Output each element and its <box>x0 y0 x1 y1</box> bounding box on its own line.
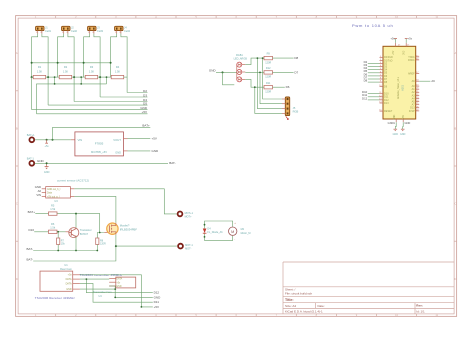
wire: J4 right pin to tap column <box>121 34 127 93</box>
svg-text:GND: GND <box>152 149 160 153</box>
wire: emitter down <box>75 237 77 251</box>
arduino pin D2 <box>364 60 388 66</box>
svg-text:F7805: F7805 <box>95 142 104 146</box>
wire: J4 left pin to divider <box>111 34 117 78</box>
arduino pin D4 <box>364 66 388 72</box>
svg-text:D8: D8 <box>364 79 368 83</box>
junction <box>57 250 59 252</box>
svg-text:120R: 120R <box>265 76 271 79</box>
svg-text:+5v: +5v <box>408 36 413 40</box>
resistor R4 1.5K <box>111 65 124 79</box>
svg-text:BAT-: BAT- <box>27 247 33 251</box>
arduino pin A3 <box>412 94 420 97</box>
svg-text:GND: GND <box>154 295 162 299</box>
wire: taps down to low rail <box>54 77 56 84</box>
svg-text:R11: R11 <box>266 82 271 85</box>
svg-text:GND: GND <box>115 150 121 154</box>
receiver module U1 <box>40 263 73 292</box>
LED RGB1 <box>234 54 248 82</box>
svg-text:R2: R2 <box>64 65 68 69</box>
wire + net label D2 <box>127 89 147 93</box>
svg-text:A101: A101 <box>402 84 405 90</box>
wire + net label +5V <box>37 110 148 114</box>
junction <box>99 232 101 234</box>
test point MOT+ <box>178 212 194 219</box>
arduino pin TXD1 <box>408 55 419 58</box>
wire: rcv data2 to D11 <box>80 283 159 304</box>
test point BAT+ <box>27 133 35 142</box>
wire: sensor out to MOT+ <box>70 189 176 214</box>
svg-text:VOUT: VOUT <box>113 138 121 142</box>
svg-text:Cell1: Cell1 <box>45 29 51 33</box>
net label GND (led) <box>209 69 237 73</box>
resistor R5 1.5k <box>49 204 58 216</box>
wire: BAT- rail 1 <box>27 247 98 251</box>
junction <box>115 245 117 247</box>
svg-text:Cell4: Cell4 <box>124 29 130 33</box>
arduino pin D6 <box>364 72 388 78</box>
svg-text:R4: R4 <box>116 65 120 69</box>
svg-text:3V3: 3V3 <box>404 50 406 55</box>
wire: J1 right pin to tap column <box>42 34 48 106</box>
arduino pin RXD1 <box>408 58 419 61</box>
arduino pin D9 <box>379 85 388 88</box>
resistor R3 1.5K <box>85 65 98 79</box>
svg-text:D8: D8 <box>294 56 298 60</box>
svg-text:Id: 1/1: Id: 1/1 <box>416 310 425 314</box>
svg-text:D: D <box>454 277 456 281</box>
wire <box>124 76 127 78</box>
junction <box>257 57 259 59</box>
wire <box>72 76 86 78</box>
svg-text:BAT+1: BAT+1 <box>27 133 35 137</box>
svg-text:A6: A6 <box>431 79 435 83</box>
svg-text:AREF: AREF <box>408 72 415 75</box>
svg-text:D12: D12 <box>362 96 368 100</box>
svg-text:RGB1: RGB1 <box>236 54 243 57</box>
title block <box>283 262 454 314</box>
svg-text:RGB: RGB <box>293 110 299 114</box>
wire: J5 pin3 riser <box>257 58 282 109</box>
wire: top rail joining cell minus columns <box>32 62 111 64</box>
wire: led R to R9 <box>245 58 264 65</box>
junction <box>75 213 77 215</box>
arduino pin D11 <box>362 93 389 99</box>
wire: regulator GND <box>124 149 160 153</box>
diode D4 flyback <box>203 227 223 234</box>
wire <box>98 76 112 78</box>
svg-text:BAT-: BAT- <box>27 257 33 261</box>
arduino pin AREF <box>408 72 419 75</box>
sensor pin VIN <box>36 193 45 197</box>
wire: rcv data1 to TX and D12 <box>80 279 160 295</box>
svg-text:BAT-: BAT- <box>169 161 175 165</box>
junction <box>141 306 143 308</box>
arduino pin D13 <box>410 106 419 109</box>
svg-text:Transistor: Transistor <box>80 228 92 232</box>
wire: BAT+ net label branch <box>53 123 151 139</box>
transmitter pin <box>109 285 116 287</box>
svg-text:MOT-: MOT- <box>185 247 191 250</box>
mosfet Q2 IRLB3034PBF <box>107 223 138 235</box>
wire + net label D4 <box>74 98 147 102</box>
ground symbol <box>44 163 50 174</box>
wire: resistor divider row <box>32 76 34 78</box>
arduino pin A6 <box>412 79 436 83</box>
wire: BAT+ motor rail with R5 <box>28 210 108 233</box>
arduino pin D13 <box>379 102 389 105</box>
svg-text:Cell3: Cell3 <box>97 29 103 33</box>
svg-text:D7: D7 <box>294 70 298 74</box>
junction <box>110 62 112 64</box>
svg-text:-: - <box>234 238 235 242</box>
power symbol +5v below junction <box>45 140 50 148</box>
svg-text:B: B <box>16 126 18 130</box>
svg-text:Title:: Title: <box>285 298 294 302</box>
arduino pin D7 <box>364 75 388 81</box>
wire: motor loop <box>205 221 233 228</box>
svg-text:Data: Data <box>47 192 53 195</box>
arduino pin A4 <box>412 97 420 100</box>
arduino pin D3 <box>364 63 388 69</box>
junction <box>96 250 98 252</box>
power pin top right 3V3 <box>398 36 413 54</box>
svg-text:1.5k: 1.5k <box>50 207 56 211</box>
svg-text:U3: U3 <box>54 199 58 203</box>
svg-text:RESET: RESET <box>384 110 393 113</box>
wire: J3 right pin to tap column <box>94 34 100 98</box>
svg-text:Rev:: Rev: <box>416 304 423 308</box>
svg-text:D: D <box>16 277 18 281</box>
wire: J5 pin1 riser <box>263 58 282 99</box>
svg-text:D3: D3 <box>143 93 147 97</box>
junction <box>57 62 59 64</box>
svg-text:File: circuit build.sch: File: circuit build.sch <box>285 292 312 296</box>
resistor R8 120R (vertical) <box>96 238 106 246</box>
wire + net label D6 <box>273 85 290 89</box>
no-connect arrow under J5 <box>286 116 289 119</box>
test point BAT- <box>27 157 35 166</box>
wire: R8 bottom <box>96 245 98 251</box>
svg-text:C: C <box>16 202 18 206</box>
wire: J2 left pin to divider <box>58 34 64 78</box>
ground symbol right <box>400 122 406 136</box>
junction <box>114 288 116 290</box>
wire: R8 gate tie <box>97 233 99 239</box>
motor M1 <box>229 221 251 242</box>
resistor R2 1.5K <box>59 65 71 79</box>
junction <box>47 76 49 78</box>
arduino pin A1 <box>412 88 420 91</box>
arduino pin D5 <box>364 69 388 75</box>
resistor R1 1.5K <box>33 65 46 79</box>
svg-text:R6: R6 <box>51 222 55 226</box>
svg-text:D12: D12 <box>154 291 160 295</box>
wire: R7 top <box>57 232 59 238</box>
svg-text:GND: GND <box>116 286 121 288</box>
svg-text:A: A <box>455 51 457 55</box>
svg-text:M2: M2 <box>241 228 245 231</box>
arduino pin D1/TxD <box>380 59 393 62</box>
resistor R9 120R <box>264 53 273 65</box>
connector J2 (battery cell 2) <box>62 26 78 35</box>
svg-text:TSU2006 transmitter 433MHz: TSU2006 transmitter 433MHz <box>80 273 123 277</box>
wire <box>46 76 60 78</box>
junction <box>204 224 206 226</box>
svg-text:IRLB3034PBF: IRLB3034PBF <box>120 228 138 232</box>
wire: J2 right pin to tap column <box>68 34 74 102</box>
test point MOT- <box>178 244 193 251</box>
wire: led B to R11 <box>245 79 264 87</box>
svg-text:+5V: +5V <box>154 305 159 309</box>
svg-text:BAT+: BAT+ <box>142 123 150 127</box>
svg-text:D5: D5 <box>143 101 147 105</box>
wire: J1 left pin to divider <box>32 34 38 78</box>
arduino pin A2 <box>412 91 420 94</box>
svg-text:D2: D2 <box>143 89 147 93</box>
sensor pin A0 <box>38 189 46 193</box>
svg-text:D11: D11 <box>154 300 160 304</box>
svg-text:GND: GND <box>405 121 411 125</box>
svg-text:ICSP: ICSP <box>409 110 415 113</box>
svg-text:Motor_M: Motor_M <box>241 232 251 235</box>
junction <box>80 83 82 85</box>
svg-text:MOT+: MOT+ <box>185 215 193 218</box>
junction <box>54 83 56 85</box>
resistor R11 120R <box>264 82 273 94</box>
transmitter pin <box>109 277 116 279</box>
wire: R7 bottom <box>57 245 59 251</box>
svg-text:MC7805_+5V: MC7805_+5V <box>91 150 107 154</box>
transistor Q1 BC547 <box>69 228 92 238</box>
wire + net label D5 <box>48 101 147 105</box>
svg-text:R5: R5 <box>51 204 55 208</box>
sensor pin GND <box>35 185 46 189</box>
receiver pin <box>73 282 80 284</box>
svg-text:GND1: GND1 <box>388 121 396 125</box>
svg-text:A: A <box>16 51 18 55</box>
svg-text:+5V out_a_l: +5V out_a_l <box>47 196 60 199</box>
resistor R7 15k (vertical) <box>57 238 66 246</box>
svg-text:RXD1: RXD1 <box>408 59 415 62</box>
svg-text:GND: GND <box>209 69 217 73</box>
svg-text:1.5K: 1.5K <box>37 70 43 74</box>
wire: low rail to +5V feed <box>37 84 107 114</box>
junction <box>86 278 88 280</box>
svg-text:Cell2: Cell2 <box>71 29 77 33</box>
wire: rcv +5v to +5V label <box>80 275 159 309</box>
wire + net label D3 <box>100 93 147 97</box>
connector J5 RGB <box>282 97 298 116</box>
svg-text:R12: R12 <box>266 67 271 70</box>
svg-text:D6: D6 <box>286 85 290 89</box>
svg-text:R3: R3 <box>90 65 94 69</box>
svg-text:B: B <box>455 126 457 130</box>
svg-text:U1: U1 <box>64 263 68 267</box>
wire: BAT- rail <box>35 159 176 165</box>
svg-text:R1: R1 <box>38 65 42 69</box>
junction <box>262 57 264 59</box>
connector J1 (battery cell 1) <box>36 26 52 35</box>
arduino pin RESET <box>379 110 393 113</box>
svg-text:BAT+: BAT+ <box>28 210 36 214</box>
svg-text:1.5k: 1.5k <box>50 225 56 229</box>
wire: J3 left pin to divider <box>84 34 90 78</box>
power +5V pin top left <box>391 36 397 54</box>
svg-text:M: M <box>231 230 234 234</box>
svg-text:Size: A4: Size: A4 <box>285 304 296 308</box>
arduino pin A5 <box>412 100 420 103</box>
svg-text:1.5K: 1.5K <box>89 70 95 74</box>
resistor R6 1.5k <box>49 222 58 234</box>
svg-text:+5V: +5V <box>142 110 147 114</box>
svg-text:FL_Diode_Ah: FL_Diode_Ah <box>207 231 223 234</box>
transmitter module U4 <box>93 277 136 298</box>
junction <box>52 139 54 141</box>
svg-text:1.5K: 1.5K <box>115 70 121 74</box>
svg-text:current sensor (ACS712): current sensor (ACS712) <box>57 178 89 182</box>
svg-text:Pwm to 10A 5 uh: Pwm to 10A 5 uh <box>352 23 394 28</box>
connector J3 (battery cell 3) <box>88 26 104 35</box>
svg-text:+5v: +5v <box>391 36 396 40</box>
transmitter pin <box>109 281 116 283</box>
svg-text:+5V: +5V <box>393 50 395 55</box>
svg-text:Arduino_Nano_v3.x: Arduino_Nano_v3.x <box>397 76 400 99</box>
svg-text:GND: GND <box>400 133 406 136</box>
wire: J5 pin2 riser <box>260 72 282 103</box>
svg-text:GND: GND <box>37 159 45 163</box>
svg-text:120R: 120R <box>265 90 271 93</box>
wire: J5 pin4 riser <box>255 87 282 113</box>
arduino pin D12 <box>362 96 389 102</box>
wire: sensor out to mosfet drain <box>70 196 116 222</box>
wire: BAT+ to regulator input <box>35 139 71 141</box>
wire + net label D7 <box>273 70 299 74</box>
svg-text:GND: GND <box>66 288 72 291</box>
regulator U2 F7805 <box>75 132 124 156</box>
svg-text:GND: GND <box>394 114 396 119</box>
junction <box>254 86 256 88</box>
svg-text:TSU2006 Receiver 433MHz: TSU2006 Receiver 433MHz <box>35 296 75 300</box>
receiver pin <box>73 278 80 280</box>
arduino pin D10 <box>362 90 389 96</box>
junction <box>31 62 33 64</box>
arduino pin A0 <box>412 85 420 88</box>
arduino pin D8 <box>364 79 388 85</box>
resistor R12 120R <box>264 67 273 79</box>
svg-text:Mosfet?: Mosfet? <box>120 224 130 228</box>
svg-text:C: C <box>454 202 456 206</box>
svg-text:KiCad E.D.A. kicad (5.1.4)-1: KiCad E.D.A. kicad (5.1.4)-1 <box>285 310 323 314</box>
junction <box>204 236 206 238</box>
svg-text:LED_ARGB: LED_ARGB <box>234 58 248 61</box>
junction <box>73 76 75 78</box>
wire: collector <box>75 214 77 229</box>
wire <box>205 233 233 240</box>
wire: source to MOT- and BAT- rail2 <box>27 235 177 262</box>
svg-text:VIN: VIN <box>78 138 83 142</box>
receiver pin <box>73 274 80 276</box>
svg-text:DATA: DATA <box>66 278 72 281</box>
svg-text:GND: GND <box>44 171 50 174</box>
junction <box>259 72 261 74</box>
junction <box>99 76 101 78</box>
svg-text:Rear Cam: Rear Cam <box>60 267 72 271</box>
svg-text:BC547: BC547 <box>80 232 89 236</box>
arduino pin A7 <box>412 103 420 106</box>
arduino nano U5 body <box>383 46 416 119</box>
svg-text:+5V: +5V <box>152 137 157 141</box>
svg-text:DATA: DATA <box>66 282 72 285</box>
arduino pin ICSP <box>409 109 420 112</box>
junction <box>114 297 116 299</box>
wire + net label GND <box>32 77 148 110</box>
junction <box>222 71 224 73</box>
arduino pin D0/RxD <box>380 56 393 59</box>
current sensor U3 <box>46 187 71 203</box>
svg-text:D10: D10 <box>28 228 34 232</box>
svg-text:GND: GND <box>393 133 399 136</box>
svg-text:120R: 120R <box>265 61 271 64</box>
junction <box>57 231 59 233</box>
wire: base feed with R6 <box>28 228 68 232</box>
svg-text:D13: D13 <box>384 102 389 105</box>
svg-text:Date:: Date: <box>318 304 325 308</box>
svg-text:120R: 120R <box>100 243 106 246</box>
junction <box>46 162 48 164</box>
junction <box>46 139 48 141</box>
svg-text:VIN: VIN <box>36 193 41 197</box>
connector J4 (battery cell 4) <box>115 26 131 35</box>
junction <box>75 250 77 252</box>
svg-text:1.5K: 1.5K <box>63 70 69 74</box>
junction <box>83 62 85 64</box>
wire: led G to R12 <box>245 71 264 73</box>
receiver pin <box>73 288 80 290</box>
wire: regulator +5V output <box>124 137 157 141</box>
wire: rcv gnd + tx gnd to GND label <box>80 286 161 299</box>
wire + net label D8 <box>273 56 299 60</box>
arduino GND pins bottom <box>388 114 411 125</box>
wire: led second common <box>223 72 235 84</box>
ground symbol left <box>393 122 399 136</box>
svg-text:BAT-1: BAT-1 <box>27 157 35 161</box>
junction <box>31 76 33 78</box>
svg-text:DATA: DATA <box>116 278 122 281</box>
svg-text:GND out_b_l: GND out_b_l <box>47 188 61 191</box>
svg-text:VIN: VIN <box>403 115 405 119</box>
